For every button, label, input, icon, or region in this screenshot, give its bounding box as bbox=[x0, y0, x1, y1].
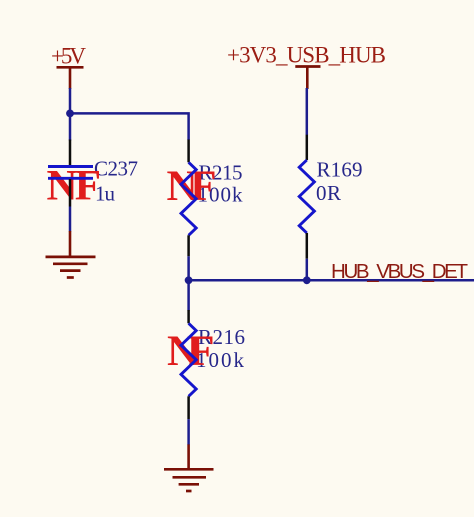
wire node B to R216 top bbox=[187, 280, 190, 310]
resistor R169 bbox=[299, 135, 314, 259]
junction node B bbox=[185, 276, 193, 284]
svg-text:0R: 0R bbox=[316, 181, 341, 205]
junction node A bbox=[66, 110, 74, 118]
svg-text:R169: R169 bbox=[317, 158, 363, 182]
ground symbol below R216 bbox=[164, 444, 214, 491]
wire node B to right edge (net HUB_VBUS_DET) bbox=[189, 279, 474, 282]
svg-text:+5V: +5V bbox=[51, 44, 86, 69]
wire R169 bottom to node C bbox=[306, 259, 309, 281]
capacitor C237 bbox=[48, 140, 93, 207]
wire node A to C237 top bbox=[69, 113, 72, 140]
power symbol +3V3_USB_HUB bbox=[227, 43, 386, 90]
svg-text:HUB_VBUS_DET: HUB_VBUS_DET bbox=[331, 260, 468, 283]
resistor R215 bbox=[181, 140, 196, 257]
wire C237 bottom to ground bbox=[69, 207, 72, 232]
junction node C bbox=[303, 276, 311, 284]
wire +5V stem to node A bbox=[69, 88, 72, 113]
svg-text:NF: NF bbox=[47, 163, 102, 210]
wire +3V3_USB_HUB stem to R169 top bbox=[306, 88, 309, 135]
power symbol +5V bbox=[51, 44, 86, 90]
wire node A to R215 top bbox=[70, 113, 189, 140]
wire R216 bottom to ground bbox=[187, 419, 190, 445]
svg-text:+3V3_USB_HUB: +3V3_USB_HUB bbox=[227, 43, 386, 68]
ground symbol below C237 bbox=[46, 231, 96, 278]
wire R215 bottom to node B bbox=[187, 256, 190, 280]
resistor R216 bbox=[181, 310, 196, 419]
